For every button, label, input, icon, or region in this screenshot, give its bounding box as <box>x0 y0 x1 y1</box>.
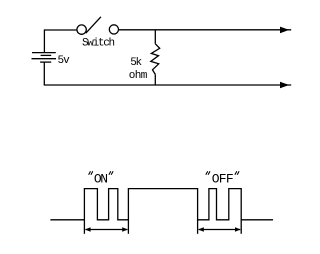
dimension arrowhead ON left <box>85 227 91 231</box>
svg-text:Switch: Switch <box>82 37 115 49</box>
arrowhead output bottom <box>280 82 289 89</box>
resistor R1 top lead <box>154 30 156 44</box>
switch S1 lever arm <box>86 17 101 33</box>
label OFF opening quote ticks <box>206 171 210 175</box>
svg-text:5k: 5k <box>130 57 142 69</box>
svg-text:OFF: OFF <box>212 171 233 186</box>
resistor R1 bottom lead <box>154 74 156 85</box>
guide line ON end <box>127 220 129 234</box>
arrowhead output top <box>280 27 289 34</box>
wire bottom rail <box>44 84 291 86</box>
label ON closing quote ticks <box>109 171 113 175</box>
dimension arrowhead OFF right <box>235 227 241 231</box>
svg-text:ohm: ohm <box>129 70 148 82</box>
battery B1 plate short upper <box>41 54 52 56</box>
switch S1 terminal circle right <box>109 25 118 34</box>
dimension line ON <box>86 229 128 231</box>
label ON opening quote ticks <box>89 171 93 175</box>
svg-text:5v: 5v <box>58 55 71 67</box>
dimension arrowhead ON right <box>122 227 128 231</box>
svg-text:ON: ON <box>94 171 107 186</box>
dimension arrowhead OFF left <box>198 227 204 231</box>
wire top-left horizontal <box>44 29 76 31</box>
guide line ON start <box>83 220 85 234</box>
wire left vertical (battery top lead) <box>43 29 45 52</box>
waveform trace <box>50 189 273 220</box>
battery B1 plate long lower <box>32 58 57 60</box>
resistor R1 zigzag body <box>151 44 160 75</box>
guide line OFF end <box>240 220 242 234</box>
dimension line OFF <box>199 229 240 231</box>
label OFF closing quote ticks <box>235 171 239 175</box>
switch S1 terminal circle left <box>77 25 86 34</box>
wire battery bottom lead <box>43 62 45 85</box>
guide line OFF start <box>197 220 199 234</box>
wire top rail (switch to arrow) <box>119 29 292 31</box>
battery B1 plate long top <box>32 52 56 54</box>
battery B1 plate short bottom <box>40 61 51 63</box>
